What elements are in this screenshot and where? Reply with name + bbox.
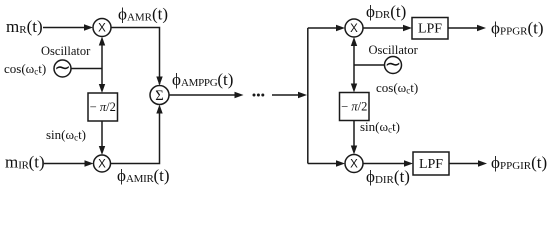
wire phase box R to bottom-right multiplier	[353, 121, 355, 147]
wire after dots to right block	[272, 94, 299, 96]
svg-text:sin(ωct): sin(ωct)	[360, 119, 400, 135]
svg-text:cos(ωct): cos(ωct)	[4, 61, 46, 77]
wire to bottom-right multiplier	[308, 163, 337, 165]
arrowhead into summer bottom	[156, 105, 162, 114]
phase shifter box left	[88, 93, 118, 121]
svg-text:X: X	[98, 23, 106, 35]
svg-text:LPF: LPF	[419, 157, 443, 172]
wire m_R to top-left multiplier	[43, 27, 85, 29]
arrowhead down into left phase box	[99, 84, 105, 93]
wire to top-right multiplier	[308, 27, 337, 29]
svg-text:mIR(t): mIR(t)	[5, 153, 45, 172]
wire junction down to phase box	[101, 69, 103, 86]
svg-text:ϕAMPPG(t): ϕAMPPG(t)	[172, 70, 233, 89]
wire junction R up to multiplier	[353, 46, 355, 66]
arrowhead down into right phase box	[351, 84, 357, 93]
svg-text:Oscillator: Oscillator	[41, 44, 91, 58]
svg-text:ϕAMR(t): ϕAMR(t)	[118, 5, 168, 24]
arrowhead into LPF2	[404, 160, 413, 166]
multiplier top-left	[93, 19, 111, 37]
wire bottom-left multiplier to summer (corner)	[111, 113, 160, 164]
wire oscillator L to junction	[71, 68, 102, 70]
svg-text:sin(ωct): sin(ωct)	[46, 127, 86, 143]
summer	[150, 86, 169, 105]
svg-text:cos(ωct): cos(ωct)	[376, 80, 418, 96]
svg-text:LPF: LPF	[418, 22, 442, 37]
svg-text:mR(t): mR(t)	[6, 17, 43, 36]
svg-text:Σ: Σ	[155, 88, 163, 104]
oscillator left	[54, 60, 71, 77]
arrowhead into bottom-right multiplier	[336, 160, 345, 166]
svg-text:X: X	[350, 23, 358, 35]
dots ...	[253, 94, 256, 97]
svg-text:− π/2: − π/2	[341, 100, 367, 114]
arrowhead LPF1 output	[477, 25, 486, 31]
wire LPF2 to output IR	[449, 163, 479, 165]
wire oscillator R to junction	[354, 64, 385, 66]
arrowhead into top-left multiplier	[84, 24, 93, 30]
wire junction R down to phase box	[353, 65, 355, 85]
wire top-left multiplier to summer (corner)	[111, 28, 160, 85]
wire bottom-right multiplier to LPF	[363, 163, 405, 165]
LPF box top	[412, 18, 448, 40]
wire top-right multiplier to LPF	[363, 27, 404, 29]
arrowhead LPF2 output	[478, 160, 487, 166]
arrowhead up into top-right multiplier bottom	[351, 37, 357, 46]
wire m_IR to bottom-left multiplier	[44, 163, 85, 165]
arrowhead into summer top	[156, 77, 162, 86]
wire right distribution vertical	[307, 28, 309, 164]
arrowhead into LPF1	[403, 25, 412, 31]
arrowhead into top-right multiplier	[336, 25, 345, 31]
svg-text:ϕAMIR(t): ϕAMIR(t)	[117, 166, 170, 185]
multiplier top-right	[345, 19, 363, 37]
phase shifter box right	[340, 93, 370, 121]
multiplier bottom-right	[345, 155, 363, 173]
arrowhead into bottom-left multiplier top	[99, 146, 105, 155]
arrowhead into bottom-left multiplier	[85, 160, 94, 166]
wire junction up to multiplier	[101, 45, 103, 69]
wire LPF to output R	[448, 27, 478, 29]
svg-text:ϕPPGR(t): ϕPPGR(t)	[491, 19, 544, 38]
svg-text:ϕDR(t): ϕDR(t)	[366, 2, 406, 21]
multiplier bottom-left	[94, 155, 111, 172]
svg-text:X: X	[98, 159, 106, 171]
oscillator right	[385, 57, 402, 74]
arrowhead summer output	[235, 92, 244, 98]
svg-text:∼: ∼	[54, 57, 71, 79]
arrowhead up into top-left multiplier bottom	[99, 37, 105, 46]
wire phase box to bottom-left multiplier	[101, 121, 103, 147]
wire summer output	[169, 94, 236, 96]
svg-text:∼: ∼	[385, 54, 402, 76]
svg-text:ϕPPGIR(t): ϕPPGIR(t)	[491, 153, 547, 172]
arrowhead into bottom-right multiplier top	[351, 146, 357, 155]
svg-text:X: X	[350, 159, 358, 171]
svg-text:ϕDIR(t): ϕDIR(t)	[366, 167, 410, 186]
svg-text:− π/2: − π/2	[90, 100, 116, 114]
arrowhead into right distribution line	[298, 92, 307, 98]
LPF box bottom	[413, 152, 449, 175]
